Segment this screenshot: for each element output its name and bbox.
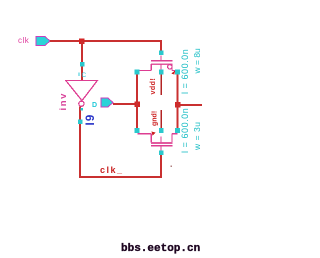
pin square inverter output bbox=[78, 119, 83, 124]
junction right node bbox=[175, 102, 181, 108]
pin square pmos source bbox=[135, 70, 140, 75]
transistor M1 drain drop right bbox=[171, 64, 172, 71]
svg-text:l = 600.0n: l = 600.0n bbox=[180, 108, 190, 153]
transistor M2 gate bar bbox=[151, 145, 173, 146]
wire output to right edge bbox=[178, 104, 202, 106]
wire left node vertical bbox=[136, 72, 138, 131]
pin square nmos drain bbox=[175, 128, 180, 133]
pin square inverter input bbox=[80, 62, 85, 67]
wire clk_ horizontal bbox=[79, 176, 162, 178]
junction left node bbox=[134, 101, 140, 107]
transistor M2 nmos source arm left bbox=[138, 133, 152, 134]
transistor M1 bubble marker bbox=[168, 65, 172, 69]
svg-text:w = 8u: w = 8u bbox=[192, 48, 202, 75]
svg-text:w = 3u: w = 3u bbox=[192, 121, 202, 151]
input pin clk (flag symbol) bbox=[36, 37, 50, 46]
svg-text:clk: clk bbox=[18, 36, 30, 45]
wire clk vertical to inverter bbox=[81, 41, 83, 80]
pin name C bbox=[79, 73, 80, 77]
wire clk corner down to pmos gate bbox=[160, 41, 162, 53]
stray dot bbox=[171, 166, 173, 168]
transistor M1 pmos gate bar bbox=[151, 60, 173, 61]
pin square nmos gate bbox=[159, 150, 164, 155]
inverter bubble bbox=[79, 101, 84, 106]
pin square nmos source bbox=[135, 128, 140, 133]
pin tick below bubble bbox=[80, 108, 83, 111]
svg-text:bbs.eetop.cn: bbs.eetop.cn bbox=[121, 243, 200, 255]
svg-text:inv: inv bbox=[58, 92, 69, 111]
inverter triangle I9 (inv) bbox=[66, 81, 98, 101]
pin square pmos drain bbox=[175, 70, 180, 75]
pin square nmos bulk bbox=[159, 128, 164, 133]
wire junction on clk net bbox=[79, 38, 85, 44]
transistor M1 source drop left bbox=[151, 64, 152, 71]
transistor M2 gate lead bbox=[160, 146, 161, 151]
wire inverter output down bbox=[79, 107, 81, 178]
transistor M2 drain arm right bbox=[172, 133, 178, 134]
transistor M2 channel bar bbox=[151, 142, 173, 144]
pin square pmos gate bbox=[159, 51, 164, 56]
transistor M2 drain drop right bbox=[171, 134, 172, 143]
svg-text:D: D bbox=[92, 102, 97, 109]
transistor M1 pmos gate lead bbox=[160, 56, 161, 61]
transistor M1 arrow mark bbox=[171, 71, 175, 75]
wire clk_ vertical up to nmos gate bbox=[160, 155, 162, 177]
wire right node vertical bbox=[177, 72, 179, 131]
transistor M2 source drop left bbox=[151, 134, 152, 143]
wire bulk stub vdd bbox=[160, 75, 162, 96]
wire clk horizontal bbox=[50, 40, 162, 42]
svg-text:I9: I9 bbox=[85, 114, 97, 126]
input pin D (flag symbol) bbox=[101, 98, 113, 107]
svg-text:clk_: clk_ bbox=[100, 165, 124, 175]
transistor M1 drain arm right bbox=[172, 70, 178, 71]
wire D to tgate left node bbox=[113, 103, 138, 105]
transistor M1 bulk drop bbox=[160, 64, 161, 70]
svg-text:l = 600.0n: l = 600.0n bbox=[180, 49, 190, 94]
transistor M2 bulk drop bbox=[160, 137, 161, 143]
transistor M2 arrow mark bbox=[152, 132, 156, 136]
svg-text:gnd!: gnd! bbox=[152, 111, 159, 126]
wire bulk stub gnd bbox=[160, 110, 162, 128]
transistor M1 pmos channel bar bbox=[151, 63, 173, 65]
transistor M1 source arm left bbox=[138, 70, 152, 71]
svg-text:vdd!: vdd! bbox=[150, 78, 157, 95]
pin square pmos bulk bbox=[159, 70, 164, 75]
svg-text:C: C bbox=[82, 72, 87, 79]
